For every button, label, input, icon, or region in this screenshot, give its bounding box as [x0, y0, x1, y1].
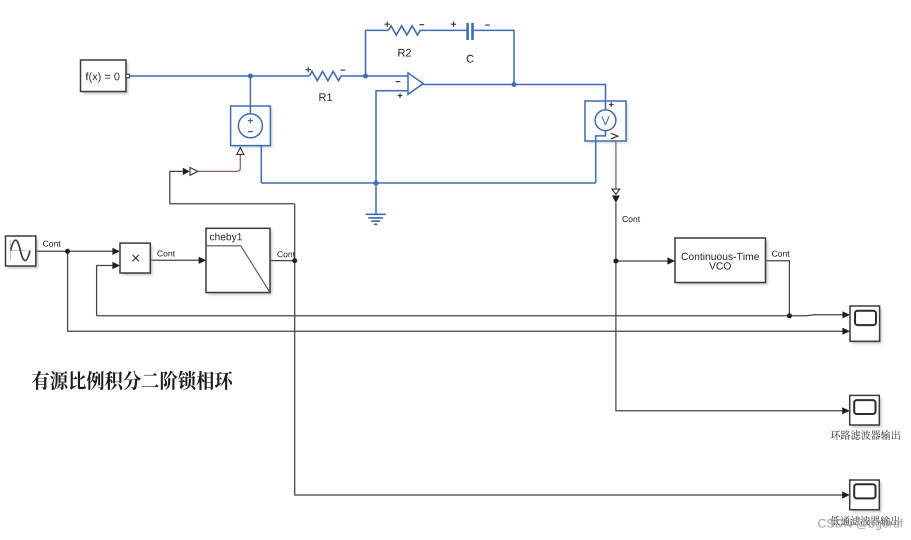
wire VCO output down to feedback line: [766, 261, 790, 316]
feedback line VCO to product and scope input 1: [97, 315, 844, 316]
VCO node junction: [613, 259, 618, 264]
wire voltage source minus terminal down to ground rail: [260, 146, 262, 183]
VCO output junction: [787, 313, 792, 318]
ground: [366, 183, 386, 224]
PS wire converter to voltage source input: [198, 155, 241, 172]
voltage sensor plus mark: [609, 102, 614, 107]
arrow into loop-filter scope: [842, 407, 850, 414]
node B junction: [363, 74, 368, 79]
wire sine node down to scope input 2: [68, 251, 844, 331]
op-amp U1: [408, 73, 423, 95]
R1 plus polarity: [306, 67, 311, 72]
op-amp inverting sign: [396, 81, 401, 83]
ground rail wire: [261, 182, 595, 184]
C minus polarity: [485, 24, 490, 26]
wire sine wave to product: [36, 250, 114, 252]
wire VCO node to VCO input: [616, 260, 669, 262]
wire cheby1 node down to low-pass scope: [295, 204, 844, 495]
ground rail junction: [374, 181, 379, 186]
cheby1 output junction: [292, 258, 297, 263]
wire op-amp output to voltage sensor: [423, 85, 605, 102]
label 环路滤波器输出: [831, 430, 900, 440]
product block: [120, 243, 153, 275]
wire R2 to capacitor C: [420, 29, 467, 31]
label 低通滤波器输出: [830, 516, 899, 526]
R2 value label: [398, 49, 411, 57]
controlled voltage source block: [231, 106, 273, 148]
wire feedback up to product input 2: [97, 266, 114, 316]
wire converter down to VCO node and loop-filter scope: [616, 203, 843, 411]
wire solver output to node A: [130, 75, 310, 77]
C plus polarity: [451, 22, 456, 27]
wire node A down into voltage source: [249, 76, 251, 106]
wire product to cheby1: [150, 259, 200, 261]
title 有源比例积分二阶锁相环: [32, 371, 232, 390]
arrow into scope input 1: [842, 311, 850, 318]
resistor R2: [388, 26, 420, 35]
R2 plus polarity: [385, 22, 390, 27]
wire R1 to op-amp inverting input: [341, 75, 409, 77]
wire node B up to R2 branch: [366, 30, 389, 76]
op-amp non-inverting sign: [398, 93, 403, 98]
arrow into product input 1: [112, 248, 120, 255]
wire voltage sensor negative terminal to ground rail: [595, 141, 597, 183]
arrow into product input 2: [112, 262, 120, 269]
R2 minus polarity: [419, 24, 424, 26]
Cont label VCO output: [772, 251, 790, 257]
wire ground rail up to op-amp non-inverting input: [376, 91, 408, 183]
R1 value label: [319, 93, 332, 101]
Cont label cheby1 output: [277, 251, 295, 257]
arrow into low-pass scope: [842, 491, 850, 498]
resistor R1: [309, 71, 341, 80]
op-amp output node junction: [512, 82, 517, 87]
solver block port square: [126, 74, 129, 78]
scope low-pass output: [850, 480, 882, 512]
wire loop-filter feedback to converter: [170, 171, 295, 203]
C value label: [467, 55, 474, 63]
arrow into scope input 2: [842, 328, 850, 335]
Simulink-PS converter: [183, 168, 198, 176]
voltage source PS input port triangle: [237, 148, 244, 155]
arrow into VCO: [667, 257, 675, 264]
watermark CSDN: [818, 519, 903, 531]
node A junction: [248, 74, 253, 79]
voltage sensor block V: [585, 101, 628, 144]
PS-Simulink converter: [612, 189, 620, 203]
sine wave source block: [6, 236, 39, 269]
Cont label sine output: [43, 241, 61, 247]
arrow into cheby1: [199, 257, 207, 264]
wire capacitor down to op-amp output node: [474, 30, 514, 84]
scope loop filter output: [850, 395, 882, 427]
solver block f(x)=0: [81, 60, 129, 94]
PS wire voltage sensor to PS-Simulink converter: [615, 141, 617, 189]
sine node junction: [65, 249, 70, 254]
capacitor C: [466, 23, 469, 40]
R1 minus polarity: [340, 69, 345, 71]
Continuous-Time VCO block: [675, 238, 768, 285]
Cont label sensor output: [622, 216, 640, 222]
scope (reference vs VCO): [850, 306, 882, 344]
Cont label product output: [157, 250, 175, 256]
wire cheby1 output to node: [270, 260, 295, 262]
voltage sensor PS output mark: [611, 133, 618, 139]
cheby1 filter block: [206, 228, 272, 295]
